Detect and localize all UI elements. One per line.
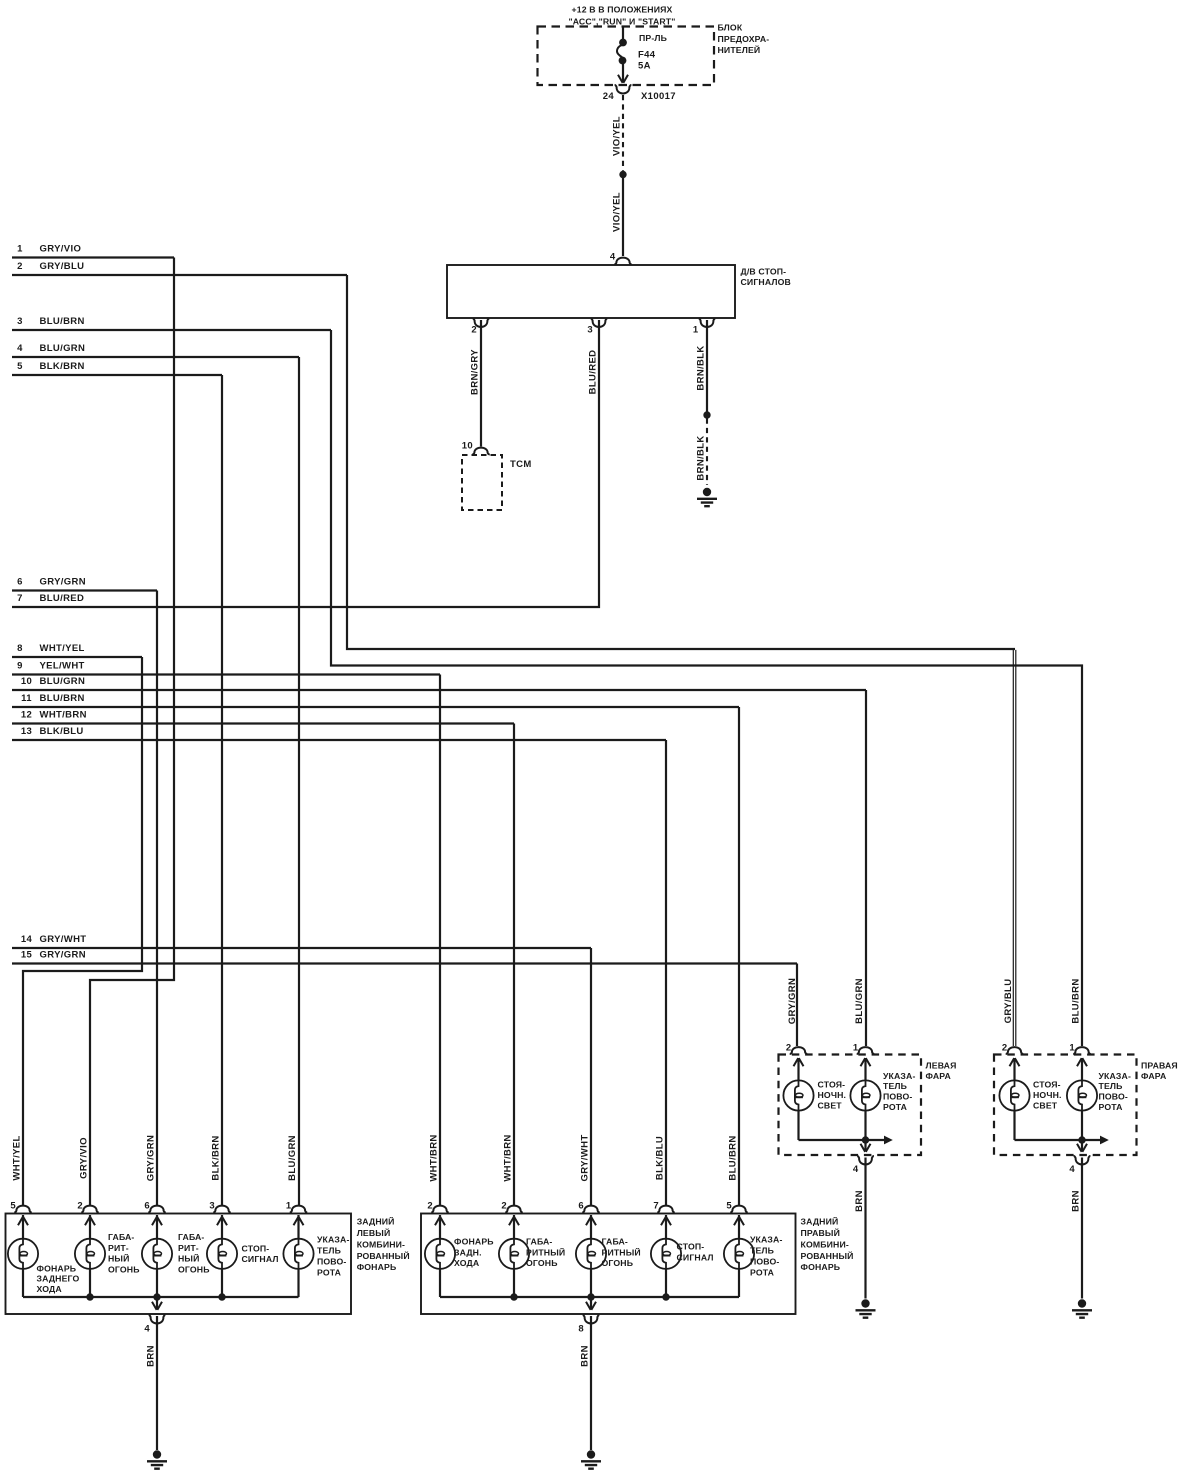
svg-text:1: 1 [286,1200,292,1211]
svg-text:5: 5 [10,1200,16,1211]
svg-text:СТОП-: СТОП- [242,1244,270,1254]
svg-text:УКАЗА-: УКАЗА- [883,1071,916,1081]
svg-text:BLK/BLU: BLK/BLU [40,726,84,737]
svg-text:РИТ-: РИТ- [108,1243,129,1253]
svg-text:BLU/BRN: BLU/BRN [40,693,85,704]
svg-text:ОГОНЬ: ОГОНЬ [178,1265,210,1275]
svg-text:3: 3 [209,1200,215,1211]
svg-text:ГАБА-: ГАБА- [108,1232,134,1242]
svg-text:ПРАВАЯ: ПРАВАЯ [1141,1061,1178,1071]
svg-text:GRY/GRN: GRY/GRN [40,577,86,588]
svg-text:ФАРА: ФАРА [1141,1071,1167,1081]
svg-text:ТЕЛЬ: ТЕЛЬ [1099,1081,1123,1091]
svg-text:WHT/YEL: WHT/YEL [12,1135,23,1180]
svg-text:ЗАДНИЙ: ЗАДНИЙ [357,1216,395,1227]
svg-text:ПРАВЫЙ: ПРАВЫЙ [801,1227,840,1238]
svg-text:2: 2 [77,1200,83,1211]
svg-text:5: 5 [726,1200,732,1211]
svg-text:GRY/GRN: GRY/GRN [146,1135,157,1181]
svg-text:НЫЙ: НЫЙ [178,1253,199,1264]
svg-text:СТОЯ-: СТОЯ- [818,1080,846,1090]
svg-text:ЗАДНЕГО: ЗАДНЕГО [37,1274,80,1284]
svg-text:2: 2 [17,261,23,272]
svg-text:ГАБА-: ГАБА- [602,1237,628,1247]
svg-text:ГАБА-: ГАБА- [178,1232,204,1242]
svg-text:СВЕТ: СВЕТ [818,1101,843,1111]
svg-text:11: 11 [21,693,32,704]
svg-text:BRN: BRN [1071,1190,1082,1212]
svg-text:5А: 5А [638,61,651,72]
svg-text:12: 12 [21,710,32,721]
svg-text:15: 15 [21,950,33,961]
svg-text:ЛЕВАЯ: ЛЕВАЯ [926,1061,957,1071]
svg-text:X10017: X10017 [641,91,676,102]
svg-text:2: 2 [427,1200,433,1211]
svg-text:4: 4 [17,343,23,354]
svg-text:10: 10 [21,676,32,687]
svg-text:WHT/YEL: WHT/YEL [40,643,85,654]
svg-text:ЗАДНИЙ: ЗАДНИЙ [801,1216,839,1227]
svg-text:ПОВО-: ПОВО- [883,1092,912,1102]
svg-text:GRY/WHT: GRY/WHT [40,934,87,945]
svg-text:YEL/WHT: YEL/WHT [40,661,85,672]
svg-text:ПОВО-: ПОВО- [317,1257,346,1267]
svg-text:ФАРА: ФАРА [926,1071,952,1081]
svg-text:BRN/BLK: BRN/BLK [696,345,707,390]
svg-text:WHT/BRN: WHT/BRN [503,1134,514,1181]
svg-text:BRN: BRN [146,1345,157,1367]
svg-text:TCM: TCM [510,459,532,470]
svg-text:24: 24 [603,91,615,102]
svg-text:GRY/VIO: GRY/VIO [79,1137,90,1179]
svg-text:7: 7 [17,593,23,604]
svg-text:BLU/RED: BLU/RED [40,593,85,604]
svg-text:РИТ-: РИТ- [178,1243,199,1253]
svg-text:НОЧН.: НОЧН. [818,1090,847,1100]
svg-text:УКАЗА-: УКАЗА- [317,1235,350,1245]
svg-text:ХОДА: ХОДА [454,1258,480,1268]
svg-text:BLK/BRN: BLK/BRN [211,1135,222,1180]
svg-text:КОМБИНИ-: КОМБИНИ- [357,1239,405,1249]
svg-text:8: 8 [578,1324,584,1335]
svg-text:GRY/GRN: GRY/GRN [40,950,86,961]
svg-text:ОГОНЬ: ОГОНЬ [108,1265,140,1275]
svg-text:BLU/GRN: BLU/GRN [287,1135,298,1181]
svg-text:ФОНАРЬ: ФОНАРЬ [37,1263,77,1273]
svg-text:4: 4 [610,252,616,263]
svg-text:ЗАДН.: ЗАДН. [454,1247,482,1257]
svg-text:+12 В В ПОЛОЖЕНИЯХ: +12 В В ПОЛОЖЕНИЯХ [572,5,673,15]
svg-text:BLU/GRN: BLU/GRN [854,978,865,1024]
svg-text:КОМБИНИ-: КОМБИНИ- [801,1239,849,1249]
svg-text:GRY/WHT: GRY/WHT [580,1135,591,1182]
svg-text:3: 3 [587,325,593,336]
svg-text:4: 4 [853,1164,859,1175]
svg-text:РОВАННЫЙ: РОВАННЫЙ [801,1250,854,1261]
svg-text:7: 7 [653,1200,659,1211]
svg-text:РОТА: РОТА [750,1268,775,1278]
svg-text:VIO/YEL: VIO/YEL [612,116,623,156]
svg-text:СИГНАЛ: СИГНАЛ [677,1253,714,1263]
svg-text:8: 8 [17,643,23,654]
svg-text:2: 2 [1002,1043,1008,1054]
svg-text:ПОВО-: ПОВО- [1099,1092,1128,1102]
svg-text:2: 2 [786,1043,792,1054]
svg-text:GRY/BLU: GRY/BLU [40,261,85,272]
svg-text:9: 9 [17,661,23,672]
svg-text:СВЕТ: СВЕТ [1033,1101,1058,1111]
svg-text:4: 4 [144,1324,150,1335]
svg-text:ОГОНЬ: ОГОНЬ [526,1258,558,1268]
svg-text:10: 10 [462,441,473,452]
svg-text:GRY/GRN: GRY/GRN [787,978,798,1024]
svg-text:BLU/BRN: BLU/BRN [728,1135,739,1180]
svg-text:ХОДА: ХОДА [37,1284,63,1294]
svg-text:5: 5 [17,361,23,372]
svg-text:ГАБА-: ГАБА- [526,1237,552,1247]
svg-text:BRN: BRN [854,1190,865,1212]
svg-text:GRY/BLU: GRY/BLU [1003,979,1014,1024]
svg-text:СТОЯ-: СТОЯ- [1033,1080,1061,1090]
svg-text:ПР-ЛЬ: ПР-ЛЬ [639,33,667,43]
svg-text:УКАЗА-: УКАЗА- [750,1235,783,1245]
svg-text:3: 3 [17,316,23,327]
svg-text:GRY/VIO: GRY/VIO [40,244,82,255]
svg-text:ФОНАРЬ: ФОНАРЬ [454,1237,494,1247]
svg-text:4: 4 [1069,1164,1075,1175]
svg-text:BLU/RED: BLU/RED [588,350,599,395]
svg-text:1: 1 [693,325,699,336]
svg-text:1: 1 [1069,1043,1075,1054]
svg-text:1: 1 [17,244,23,255]
svg-text:BLU/BRN: BLU/BRN [40,316,85,327]
svg-text:VIO/YEL: VIO/YEL [612,192,623,232]
svg-text:BRN/GRY: BRN/GRY [470,349,481,395]
svg-text:14: 14 [21,934,33,945]
svg-text:РИТНЫЙ: РИТНЫЙ [602,1246,641,1257]
svg-text:ПОВО-: ПОВО- [750,1257,779,1267]
svg-text:BLU/GRN: BLU/GRN [40,676,86,687]
svg-text:ФОНАРЬ: ФОНАРЬ [357,1262,397,1272]
svg-text:ОГОНЬ: ОГОНЬ [602,1258,634,1268]
svg-text:BRN/BLK: BRN/BLK [696,435,707,480]
svg-text:РОВАННЫЙ: РОВАННЫЙ [357,1250,410,1261]
svg-text:РОТА: РОТА [1099,1102,1124,1112]
svg-text:НЫЙ: НЫЙ [108,1253,129,1264]
svg-text:СТОП-: СТОП- [677,1242,705,1252]
svg-text:СИГНАЛ: СИГНАЛ [242,1254,279,1264]
svg-text:РОТА: РОТА [883,1102,908,1112]
svg-text:Д/В СТОП-: Д/В СТОП- [741,267,787,277]
svg-text:WHT/BRN: WHT/BRN [40,710,87,721]
svg-text:WHT/BRN: WHT/BRN [429,1134,440,1181]
svg-text:6: 6 [578,1200,584,1211]
svg-text:ФОНАРЬ: ФОНАРЬ [801,1262,841,1272]
svg-text:ТЕЛЬ: ТЕЛЬ [883,1081,907,1091]
svg-text:РИТНЫЙ: РИТНЫЙ [526,1246,565,1257]
svg-text:BLU/GRN: BLU/GRN [40,343,86,354]
svg-text:РОТА: РОТА [317,1268,342,1278]
svg-text:2: 2 [501,1200,507,1211]
svg-text:6: 6 [144,1200,150,1211]
svg-text:2: 2 [471,325,477,336]
svg-text:13: 13 [21,726,32,737]
svg-text:BLK/BRN: BLK/BRN [40,361,85,372]
svg-text:BLK/BLU: BLK/BLU [655,1136,666,1180]
svg-text:BRN: BRN [580,1345,591,1367]
svg-text:ЛЕВЫЙ: ЛЕВЫЙ [357,1227,391,1238]
svg-text:СИГНАЛОВ: СИГНАЛОВ [741,277,791,287]
svg-text:ТЕЛЬ: ТЕЛЬ [750,1246,774,1256]
svg-text:ПРЕДОХРА-: ПРЕДОХРА- [718,34,770,44]
svg-text:1: 1 [853,1043,859,1054]
svg-text:ТЕЛЬ: ТЕЛЬ [317,1246,341,1256]
svg-text:УКАЗА-: УКАЗА- [1099,1071,1132,1081]
svg-text:НИТЕЛЕЙ: НИТЕЛЕЙ [718,44,761,55]
svg-text:BLU/BRN: BLU/BRN [1071,978,1082,1023]
svg-text:"АСС","RUN" И "START": "АСС","RUN" И "START" [568,17,675,27]
svg-text:НОЧН.: НОЧН. [1033,1090,1062,1100]
svg-text:БЛОК: БЛОК [718,23,743,33]
svg-text:F44: F44 [638,50,656,61]
svg-text:6: 6 [17,577,23,588]
